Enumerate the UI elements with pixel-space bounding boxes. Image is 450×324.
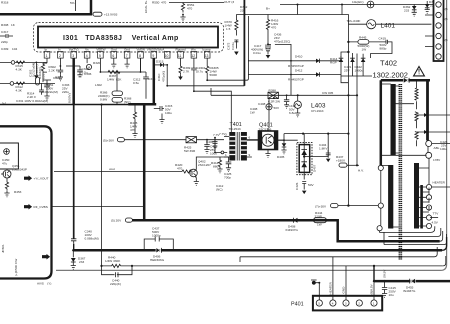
node 178V terminal bbox=[426, 146, 441, 162]
wire: net above IC bbox=[169, 2, 224, 4]
op-amp U301 body I301 TDA8358J bbox=[38, 27, 218, 48]
junction dots y104.5 bbox=[73, 103, 103, 105]
svg-text:4.5V: 4.5V bbox=[432, 221, 439, 225]
node HEATER label bbox=[432, 181, 450, 188]
capacitor C436 labels bbox=[274, 33, 290, 44]
wire P401 pin3 GND bbox=[342, 266, 346, 300]
svg-text:Gnd: Gnd bbox=[124, 48, 130, 52]
svg-text:TRL-040F: TRL-040F bbox=[347, 19, 361, 23]
svg-text:C331 100V 0.0022u(M): C331 100V 0.0022u(M) bbox=[16, 99, 48, 103]
capacitor C415 bbox=[382, 281, 397, 297]
node arrow AV out bbox=[42, 254, 50, 260]
svg-text:233: 233 bbox=[404, 8, 409, 12]
wire pin3 thick column (Vp) bbox=[72, 58, 75, 104]
svg-text:4: 4 bbox=[332, 301, 334, 305]
svg-text:2: 2 bbox=[358, 301, 360, 305]
ground pin7 bbox=[125, 58, 130, 68]
svg-text:10u: 10u bbox=[389, 293, 394, 297]
ground R399 bbox=[178, 75, 183, 80]
capacitor C418 bbox=[284, 94, 296, 114]
node misc text top-middle bbox=[240, 5, 248, 12]
wire: top-left thick L net bbox=[0, 0, 91, 14]
svg-text:RGP: RGP bbox=[330, 60, 337, 64]
wire top net y4.5 bbox=[280, 4, 404, 6]
svg-text:C306: C306 bbox=[84, 72, 92, 76]
svg-text:(5) 20V: (5) 20V bbox=[111, 219, 122, 223]
svg-text:D412: D412 bbox=[295, 69, 303, 73]
resistor R435 bbox=[130, 104, 138, 132]
svg-text:1302.2002: 1302.2002 bbox=[373, 71, 408, 80]
wire T402 left lead bbox=[380, 80, 383, 165]
capacitor C302 rotated labels bbox=[28, 63, 45, 79]
svg-text:RF_CVBS: RF_CVBS bbox=[34, 205, 48, 209]
node ABL terminal bbox=[426, 141, 450, 151]
wire P401 pin1 8.5V bbox=[370, 281, 374, 300]
diode D313 stub bbox=[154, 63, 168, 67]
svg-text:700p: 700p bbox=[224, 175, 231, 179]
svg-text:R303: R303 bbox=[55, 76, 63, 80]
transformer T401 primary bar bbox=[229, 132, 235, 161]
diode D408 bbox=[286, 218, 299, 232]
resistor R4305 pin13 bbox=[206, 58, 219, 80]
node misc cluster left of L403 bbox=[250, 107, 258, 114]
svg-text:1W: 1W bbox=[317, 223, 322, 227]
svg-text:0.0022u(M): 0.0022u(M) bbox=[42, 90, 58, 94]
svg-text:In: In bbox=[58, 48, 61, 52]
wire bundle mid thin bbox=[240, 247, 437, 262]
svg-text:D405: D405 bbox=[277, 155, 285, 159]
node tiny text right of Q402 bbox=[216, 184, 224, 191]
resistor chain right of core bbox=[415, 80, 418, 146]
resistor R313 left edge bbox=[0, 30, 13, 44]
node tiny text pair near x60 y80 bbox=[53, 76, 60, 80]
capacitor C351 bbox=[42, 80, 58, 94]
transistor Q402 bbox=[190, 160, 211, 178]
node (5) 20V pill bbox=[111, 218, 132, 223]
diode bank D414 bbox=[330, 53, 372, 83]
svg-text:50V: 50V bbox=[274, 106, 280, 110]
resistor R445 + capacitor C419 snubber bbox=[347, 36, 392, 58]
svg-text:R388: R388 bbox=[269, 89, 277, 93]
svg-text:+13.9V03: +13.9V03 bbox=[104, 13, 118, 17]
svg-text:C310: C310 bbox=[157, 73, 161, 81]
svg-text:7.7V: 7.7V bbox=[213, 133, 220, 137]
resistor R388 box on net bbox=[268, 89, 280, 104]
junction dots pin columns bbox=[100, 71, 147, 105]
svg-text:(5)+26V: (5)+26V bbox=[103, 139, 115, 143]
node tiny cluster above pin5 bbox=[93, 61, 101, 65]
wire Q401 base/collector bbox=[247, 128, 268, 140]
ground Q402 emitter bbox=[194, 178, 199, 186]
svg-text:(B: (B bbox=[445, 17, 448, 21]
svg-text:2SC5343P: 2SC5343P bbox=[12, 168, 27, 172]
wire junction x36 bbox=[34, 62, 39, 79]
node misc small labels under IC bbox=[2, 60, 164, 106]
svg-text:6.8u: 6.8u bbox=[289, 111, 295, 115]
svg-text:CH-191K: CH-191K bbox=[311, 109, 325, 113]
svg-text:OUT (3: OUT (3 bbox=[224, 0, 234, 4]
svg-text:220p(K): 220p(K) bbox=[110, 282, 121, 286]
svg-text:220p: 220p bbox=[1, 40, 8, 44]
svg-text:1W: 1W bbox=[362, 47, 367, 51]
node 4.5V label bbox=[432, 221, 439, 225]
svg-text:L302: L302 bbox=[95, 83, 102, 87]
svg-text:3: 3 bbox=[345, 301, 347, 305]
svg-text:Gnd: Gnd bbox=[111, 48, 117, 52]
resistor R315 bbox=[16, 61, 25, 71]
capacitor C313 bbox=[143, 72, 155, 99]
ground C315 bbox=[159, 114, 164, 124]
svg-text:880: 880 bbox=[213, 164, 218, 168]
svg-text:+: + bbox=[340, 55, 342, 59]
wire thick D406 bus bbox=[73, 249, 442, 252]
svg-text:3: 3 bbox=[72, 54, 74, 58]
ground pin6 bbox=[111, 58, 116, 68]
wire T402 right lead bbox=[426, 80, 429, 140]
svg-text:13: 13 bbox=[205, 54, 209, 58]
wire thick jog to bus bbox=[128, 103, 156, 106]
svg-text:C419: C419 bbox=[379, 36, 387, 40]
sheet frame (gray border) bbox=[56, 0, 447, 270]
test point circle M pin4 bbox=[86, 58, 91, 70]
wire T401 pins bbox=[224, 133, 259, 158]
transformer T401 labels bbox=[229, 122, 242, 131]
resistor R416 bbox=[266, 15, 278, 45]
svg-text:C372: C372 bbox=[227, 42, 231, 50]
svg-text:1000u: 1000u bbox=[355, 68, 364, 72]
transformer T401 secondary bar bbox=[241, 132, 247, 161]
node +30V terminal bbox=[338, 203, 383, 208]
capacitor C427b below box bbox=[295, 182, 314, 195]
svg-text:0.8W: 0.8W bbox=[100, 97, 107, 101]
svg-text:GND: GND bbox=[342, 286, 346, 294]
capacitor C372 labels bbox=[227, 42, 236, 50]
svg-text:0.012u(M): 0.012u(M) bbox=[32, 63, 36, 77]
svg-text:HEATER: HEATER bbox=[433, 181, 446, 185]
transformer T401 core bbox=[237, 132, 239, 161]
svg-text:D410: D410 bbox=[295, 55, 303, 59]
wire primary top to bar bbox=[381, 84, 414, 227]
ground D367 bbox=[71, 262, 76, 269]
wire thick bus down bbox=[143, 104, 146, 220]
svg-text:H.V.: H.V. bbox=[358, 169, 364, 173]
svg-text:C309: C309 bbox=[1, 47, 9, 51]
wire pin9 thick down bbox=[153, 58, 156, 104]
wire net y98 bbox=[166, 85, 358, 97]
svg-text:1.5: 1.5 bbox=[226, 27, 231, 31]
capacitor C401 bbox=[204, 139, 217, 156]
svg-text:11: 11 bbox=[178, 54, 182, 58]
arrester block AV/S rounded box bbox=[0, 126, 52, 278]
svg-text:D313: D313 bbox=[156, 60, 164, 64]
svg-text:100u: 100u bbox=[440, 147, 447, 151]
svg-text:2.7K: 2.7K bbox=[183, 69, 190, 73]
wire net y98 junction dots bbox=[273, 97, 275, 99]
node small labels right edge top bbox=[445, 17, 448, 42]
svg-text:ECAL B+(B): ECAL B+(B) bbox=[144, 0, 148, 13]
svg-text:2SC1207: 2SC1207 bbox=[198, 163, 211, 167]
junction dots secondary bbox=[421, 186, 423, 219]
resistor R370 labels bbox=[225, 20, 233, 31]
capacitor C404 cluster bbox=[319, 143, 331, 162]
capacitor C440 under R440 bbox=[102, 266, 133, 286]
connector P401 box bbox=[291, 296, 382, 311]
transistor Q451 bbox=[1, 164, 27, 178]
svg-text:6.2R 2W: 6.2R 2W bbox=[268, 99, 280, 103]
port circle IN2 left bbox=[0, 82, 55, 86]
svg-text:233: 233 bbox=[79, 260, 84, 264]
svg-text:(NC): (NC) bbox=[216, 187, 223, 191]
svg-text:220R: 220R bbox=[315, 214, 323, 218]
svg-text:0.01u: 0.01u bbox=[253, 51, 261, 55]
resistor R368 pill bbox=[112, 97, 132, 105]
svg-text:1.8KV: 1.8KV bbox=[319, 146, 328, 150]
diode D412 bbox=[248, 69, 341, 82]
svg-text:RH4537GP: RH4537GP bbox=[288, 78, 304, 82]
svg-text:L401: L401 bbox=[381, 23, 396, 30]
svg-text:47u: 47u bbox=[2, 161, 7, 165]
svg-text:R308: R308 bbox=[1, 23, 9, 27]
capacitor C4304 pin12 bbox=[191, 58, 205, 91]
capacitor C320 0.5u bbox=[66, 66, 89, 77]
wire Q402 collector bbox=[196, 157, 228, 170]
transistor Q401 labels bbox=[259, 123, 273, 132]
svg-text:+Y/_VOUT: +Y/_VOUT bbox=[34, 177, 49, 181]
wire thick 20V bus bbox=[132, 220, 439, 241]
svg-text:HER306G: HER306G bbox=[150, 258, 165, 262]
svg-text:0.068u(M): 0.068u(M) bbox=[85, 236, 99, 240]
svg-text:50V: 50V bbox=[308, 183, 314, 187]
svg-text:1: 1 bbox=[225, 153, 227, 157]
node labels bottom of AV box bbox=[1, 244, 5, 253]
svg-text:Ip: Ip bbox=[45, 48, 48, 52]
wire T401 primary top feed bbox=[230, 129, 232, 135]
resistor R302 pin1 column bbox=[41, 58, 57, 82]
svg-text:4.3K: 4.3K bbox=[16, 88, 23, 92]
ground pin1 bbox=[44, 91, 49, 100]
svg-text:5: 5 bbox=[99, 54, 101, 58]
wire C340 to bus bbox=[73, 244, 75, 251]
svg-text:(+)C500 CW: (+)C500 CW bbox=[14, 259, 18, 276]
wire net y104.5 under left bbox=[0, 104, 128, 106]
capacitor C437 bypass loop bbox=[144, 227, 173, 251]
diode box dashed D407 bbox=[297, 134, 328, 180]
node C426 label right edge bbox=[440, 140, 448, 151]
svg-text:JK501: JK501 bbox=[1, 244, 5, 253]
svg-text:(0.7u: (0.7u bbox=[196, 69, 203, 73]
resistor R420 bbox=[175, 163, 191, 173]
ground under R551 bbox=[180, 15, 185, 21]
svg-text:178V: 178V bbox=[433, 158, 441, 162]
svg-text:ABL: ABL bbox=[434, 146, 440, 150]
svg-text:2: 2 bbox=[59, 54, 61, 58]
wire corner x291 down to net bbox=[266, 44, 291, 95]
resistor R425 box bbox=[184, 137, 224, 153]
svg-text:IN4937G: IN4937G bbox=[403, 289, 416, 293]
wire to connector pin1 bbox=[404, 4, 434, 6]
wire vout net bbox=[54, 167, 182, 172]
svg-text:R318: R318 bbox=[1, 1, 9, 5]
node (7)+30V pill bbox=[315, 204, 338, 209]
svg-text:C426: C426 bbox=[295, 182, 299, 190]
svg-text:TD-2543: TD-2543 bbox=[229, 127, 241, 131]
transformer T402 secondary bar lower-left bbox=[388, 165, 393, 229]
wire T402 top thick bbox=[381, 79, 430, 82]
transformer T402 primary winding bar bbox=[391, 84, 396, 155]
svg-text:Rguard: Rguard bbox=[176, 48, 186, 52]
resistor R453 in box bbox=[5, 178, 21, 194]
node +13.9V pill bbox=[93, 12, 118, 17]
wire thick vertical x244 bbox=[243, 0, 245, 86]
transformer T402 labels bbox=[373, 59, 408, 80]
svg-text:S8.5V: S8.5V bbox=[383, 269, 387, 278]
node arrow RF_CVBS bbox=[24, 204, 48, 210]
svg-text:P401: P401 bbox=[291, 302, 304, 308]
diode D455 bbox=[403, 278, 416, 293]
wire net y133.6 bbox=[278, 133, 350, 141]
resistor R399 pin11 bbox=[179, 58, 191, 75]
svg-text:25V: 25V bbox=[344, 68, 350, 72]
svg-text:C317: C317 bbox=[1, 30, 9, 34]
node R300 rotated label bbox=[35, 64, 40, 85]
svg-text:7: 7 bbox=[126, 54, 128, 58]
svg-text:M: M bbox=[88, 65, 91, 69]
svg-text:8: 8 bbox=[139, 54, 141, 58]
wire T401 lower pin bbox=[214, 138, 227, 154]
svg-text:1/4W 330K: 1/4W 330K bbox=[105, 259, 121, 263]
svg-text:6: 6 bbox=[112, 54, 114, 58]
svg-text:B(50V): B(50V) bbox=[68, 93, 72, 103]
svg-text:880p: 880p bbox=[380, 46, 387, 50]
svg-text:6: 6 bbox=[249, 136, 251, 140]
capacitor C315 bbox=[154, 104, 173, 115]
svg-text:R437: R437 bbox=[336, 155, 344, 159]
diode D362 bbox=[403, 5, 417, 17]
wire pin3 net down to C340 bbox=[73, 105, 75, 239]
svg-text:100u: 100u bbox=[165, 111, 172, 115]
wire net y14.5 bbox=[236, 14, 348, 25]
ground R435 bbox=[132, 121, 137, 138]
svg-text:2.2K F: 2.2K F bbox=[49, 68, 58, 72]
svg-text:4.3K: 4.3K bbox=[16, 67, 23, 71]
svg-text:470p(K): 470p(K) bbox=[162, 71, 166, 82]
svg-text:233: 233 bbox=[240, 8, 245, 12]
ground Q451 bbox=[4, 191, 9, 197]
resistor R440 bbox=[100, 256, 133, 268]
node left edge tiny cluster y48 bbox=[1, 47, 17, 51]
svg-text:(7)+30V: (7)+30V bbox=[315, 205, 327, 209]
svg-text:vout: vout bbox=[109, 167, 115, 171]
wire stubs to strip bbox=[425, 15, 434, 47]
ground Q401 emitter bbox=[265, 150, 270, 158]
resistor R370b column bbox=[234, 15, 239, 56]
svg-text:470: 470 bbox=[187, 6, 192, 10]
diode D361 bbox=[425, 0, 437, 13]
wire pin10 column bbox=[166, 65, 168, 86]
wire T402 left lead lower bbox=[380, 171, 382, 204]
transformer T402 secondary bars right bbox=[414, 163, 423, 229]
node TTV label bbox=[430, 212, 439, 218]
wire net y80 bbox=[206, 16, 248, 81]
svg-text:5: 5 bbox=[318, 301, 320, 305]
svg-text:1: 1 bbox=[373, 301, 375, 305]
svg-text:CW 005: CW 005 bbox=[322, 91, 333, 95]
wire thin lower net bbox=[132, 265, 443, 267]
svg-text:Vs: Vs bbox=[85, 48, 89, 52]
ground L403 bbox=[295, 113, 300, 117]
svg-text:Wn: Wn bbox=[191, 48, 196, 52]
svg-text:C405: C405 bbox=[206, 140, 214, 144]
wire 178V to left bbox=[382, 155, 429, 162]
svg-text:470: 470 bbox=[271, 25, 276, 29]
transformer T402 core ticks bbox=[399, 84, 401, 260]
diode D410 bbox=[248, 55, 341, 69]
svg-text:101: 101 bbox=[41, 74, 45, 79]
svg-text:C408: C408 bbox=[258, 102, 266, 106]
resistor R551 bbox=[181, 3, 194, 16]
svg-text:9: 9 bbox=[249, 153, 251, 157]
svg-text:B+: B+ bbox=[266, 7, 270, 11]
wire bundle under T402 bbox=[380, 226, 447, 244]
node C310 rotated label bbox=[157, 71, 166, 82]
svg-text:4: 4 bbox=[86, 54, 88, 58]
wire P401 pin4 HEATER bbox=[329, 257, 333, 300]
wire pin5 EW net bbox=[100, 58, 146, 72]
svg-text:560R: 560R bbox=[210, 73, 218, 77]
svg-text:0.5u: 0.5u bbox=[133, 81, 139, 85]
diode D405 bbox=[277, 139, 298, 159]
svg-text:220u: 220u bbox=[62, 90, 69, 94]
port circle IN1 left bbox=[0, 61, 47, 65]
svg-text:Icomp: Icomp bbox=[202, 48, 211, 52]
diode D409 on top wire bbox=[404, 78, 410, 84]
svg-text:R550 470: R550 470 bbox=[152, 1, 167, 5]
node arrow +Y/_VOUT bbox=[24, 175, 49, 181]
svg-text:TTV: TTV bbox=[433, 212, 440, 216]
IC pin row boxes 1-13 bbox=[44, 48, 211, 59]
svg-text:5%: 5% bbox=[70, 1, 75, 5]
capacitor C417 bbox=[251, 43, 270, 58]
svg-text:AV/S (Y): AV/S (Y) bbox=[37, 282, 51, 286]
svg-text:1/4W 82K: 1/4W 82K bbox=[107, 77, 122, 81]
svg-text:1: 1 bbox=[46, 54, 48, 58]
svg-text:IN4937G: IN4937G bbox=[286, 228, 299, 232]
resistor R444 pill bbox=[314, 211, 327, 227]
transistor Q401 body bbox=[259, 131, 278, 150]
svg-text:R453: R453 bbox=[14, 190, 22, 194]
svg-text:HEATER: HEATER bbox=[329, 281, 333, 294]
wire net y84 bbox=[167, 85, 244, 87]
IC U301 dashed outline bbox=[34, 23, 224, 53]
capacitor C303 pin2 column bbox=[58, 58, 70, 94]
svg-text:12: 12 bbox=[191, 54, 195, 58]
resistor R312 bbox=[16, 82, 25, 92]
svg-text:0.04u: 0.04u bbox=[231, 42, 235, 50]
svg-text:47K: 47K bbox=[130, 128, 136, 132]
wire stub 5% top bbox=[70, 0, 76, 11]
resistor R414 bbox=[211, 157, 223, 173]
inductor bead on top net bbox=[352, 0, 374, 8]
wire secondary taps bbox=[419, 168, 429, 226]
diode D406 bbox=[150, 248, 165, 262]
svg-text:(B: (B bbox=[445, 38, 448, 42]
node left edge tiny cluster y30 bbox=[1, 23, 16, 27]
svg-text:D407: D407 bbox=[313, 164, 317, 172]
resistor R367 bbox=[107, 70, 122, 81]
svg-text:(+): (+) bbox=[2, 101, 6, 105]
svg-text:7.7V: 7.7V bbox=[219, 132, 226, 136]
node T402 left terminal HV bbox=[358, 165, 383, 172]
